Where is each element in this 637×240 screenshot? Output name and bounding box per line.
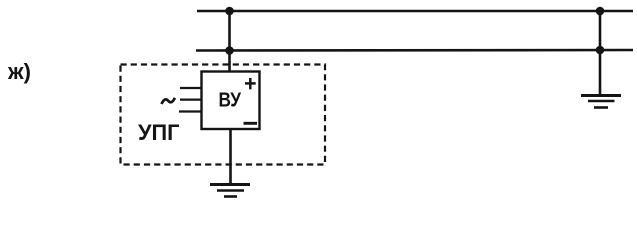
wire vertical drop from buses to ВУ [228,11,231,72]
block ВУ (rectifier unit) [202,72,260,130]
junction dot B (second bus / left drop) [225,46,234,55]
ground left [210,185,250,197]
ac input pin 3 [179,110,202,112]
junction dot D (second bus / right drop) [596,46,605,55]
svg-text:ВУ: ВУ [219,90,242,112]
junction dot C (top bus / right drop) [596,7,605,16]
minus terminal mark [244,122,258,125]
svg-text:УПГ: УПГ [138,120,180,145]
ac input pin 1 [180,87,202,89]
svg-text:ж): ж) [7,59,31,84]
wire second bus [196,49,633,52]
junction dot A (top bus / left drop) [225,7,234,16]
wire ВУ to left ground [229,129,232,184]
wire vertical drop from buses to right ground [599,11,602,95]
wire top bus [197,10,633,13]
dashed enclosure УПГ [121,65,326,165]
ac symbol ~ [162,98,175,104]
ac input pin 2 [180,98,202,100]
plus terminal mark [245,78,256,89]
ground right [581,96,621,108]
